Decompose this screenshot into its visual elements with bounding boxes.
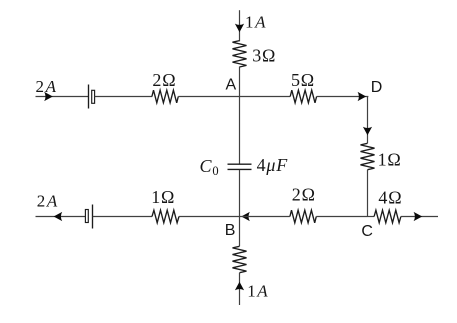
wire 5-ohm to corner D	[317, 96, 369, 98]
svg-text:2A: 2A	[37, 192, 59, 211]
resistor 3ohm (vertical)	[233, 41, 247, 67]
wire 1-ohm down to node C	[367, 170, 369, 217]
wire 1-ohm to node B	[179, 216, 240, 218]
wire left lead to battery (top row)	[36, 96, 89, 98]
svg-text:3Ω: 3Ω	[252, 45, 276, 65]
wire battery to 2-ohm resistor	[95, 96, 153, 98]
resistor 4ohm (horizontal)	[374, 210, 401, 223]
svg-text:C: C	[361, 223, 373, 240]
current arrow 2A (right)	[44, 92, 53, 101]
wire 3-ohm to node A and down to capacitor	[239, 67, 241, 164]
battery top: short plate	[92, 90, 95, 103]
current arrow out right	[414, 212, 423, 221]
wire bottom lead below resistor	[239, 273, 241, 305]
svg-text:4μF: 4μF	[257, 155, 289, 175]
resistor below B (vertical, unlabeled)	[233, 246, 247, 272]
svg-text:2Ω: 2Ω	[292, 185, 316, 205]
svg-text:A: A	[226, 76, 237, 93]
current arrow 2A bottom (left)	[54, 212, 63, 221]
wire 2-ohm to node C	[316, 216, 367, 218]
svg-text:2A: 2A	[36, 77, 58, 96]
capacitor C0: bottom plate	[228, 168, 252, 170]
wire 2-ohm through node A to 5-ohm	[178, 96, 290, 98]
resistor 1ohm bottom (horizontal)	[152, 210, 179, 223]
battery bottom: short plate	[85, 210, 88, 223]
svg-text:B: B	[225, 222, 236, 239]
wire 4-ohm out right	[401, 216, 438, 218]
svg-text:1Ω: 1Ω	[151, 187, 175, 207]
svg-text:1Ω: 1Ω	[378, 149, 402, 169]
wire left lead to battery (bottom row)	[36, 216, 86, 218]
wire C to 4-ohm	[368, 216, 375, 218]
wire battery to 1-ohm bottom	[93, 216, 152, 218]
current arrow 1A (down)	[235, 24, 244, 33]
resistor 5ohm (horizontal)	[290, 90, 316, 103]
svg-text:4Ω: 4Ω	[378, 188, 402, 208]
battery top: long plate	[88, 85, 90, 109]
svg-text:1A: 1A	[245, 13, 267, 32]
svg-text:D: D	[371, 79, 383, 96]
arrow into node D (right)	[358, 92, 367, 101]
wire top current lead into 3-ohm	[239, 10, 241, 41]
current arrow 1A bottom (up)	[235, 282, 244, 291]
svg-text:2Ω: 2Ω	[152, 70, 176, 90]
capacitor C0: top plate	[228, 163, 252, 165]
resistor 1ohm right (vertical)	[361, 143, 375, 169]
arrow into node B (left)	[241, 212, 250, 221]
wire capacitor to node B and beyond	[239, 170, 241, 246]
svg-text:C0: C0	[200, 156, 220, 178]
resistor 2ohm bottom (horizontal)	[290, 210, 316, 223]
svg-text:1A: 1A	[247, 282, 269, 301]
resistor 2ohm top (horizontal)	[152, 90, 178, 103]
arrow down toward 1-ohm	[363, 127, 372, 136]
wire D down to 1-ohm	[367, 97, 369, 144]
battery bottom: long plate	[92, 205, 94, 229]
svg-text:5Ω: 5Ω	[291, 70, 315, 90]
wire B to 2-ohm bottom	[240, 216, 290, 218]
